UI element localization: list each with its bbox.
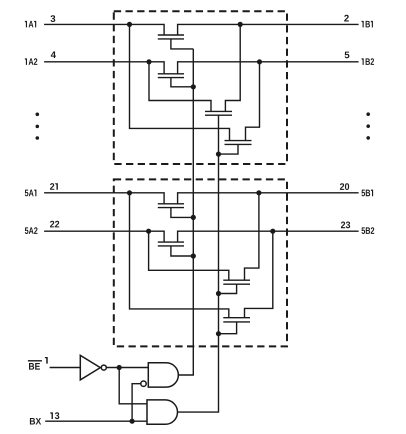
transistor Q5 gate lead to straight-control line [171,208,193,218]
label 5B2 [362,227,375,234]
pin 1 [45,357,48,364]
AND gate U2 (straight enable) body [148,363,178,387]
node junction inverter output [117,365,122,370]
transistor Q5 gate bar [158,207,184,209]
wire 5A1 (pin 21) to Q5 source lead [44,193,164,204]
transistor Q8 gate bar [223,321,250,323]
wire 5A2 (pin 22) to Q6 source lead [44,231,164,242]
node junction 1A2 / exchange tap [146,59,151,64]
transistor Q8 gate lead to exchange-control line [219,322,237,334]
pin 21 [50,183,58,190]
wire 5B1 (pin 20) to Q5 drain lead [178,193,359,204]
wire 1B2 tap to Q4 drain lead [246,62,260,141]
wire 1A2 tap to Q3 source lead [149,62,211,112]
transistor Q2 (1A2-1B2 pass FET) channel bar [158,73,184,75]
wire 1B1 (pin 2) to Q1 drain lead [178,24,359,35]
label 5A1 [25,190,37,197]
label 5B1 [362,190,374,197]
wire 5A1 tap to Q8 source lead [130,193,229,318]
label 1A2 [25,58,38,65]
label 5A2 [25,227,38,234]
label 1B1 [362,21,373,28]
transistor Q4 gate lead to exchange-control line [219,144,239,154]
wire 5A2 tap to Q7 source lead [149,231,229,280]
inverter U1 output bubble [101,365,106,370]
transistor Q2 gate lead to straight-control line [171,78,193,87]
wire 1B1 tap to Q3 drain lead [225,24,240,111]
label BE (active low) [29,363,40,370]
pin 13 [50,412,59,419]
node junction Q2 gate on straight-control line [191,84,196,89]
node junction Q4 gate on exchange-control line [216,152,221,157]
pin 22 [50,221,59,228]
node junction 5A1 / exchange tap [127,190,132,195]
wire 5B2 (pin 23) to Q6 drain lead [178,231,359,242]
node junction 1A1 / exchange tap [127,22,132,27]
pin 2 [344,15,349,22]
node junction Q8 gate on exchange-control line [216,331,221,336]
transistor Q7 (5A2-5B1 exchange FET) channel bar [223,279,250,281]
transistor Q7 gate lead to exchange-control line [219,284,237,293]
wire 5B1 tap to Q7 drain lead [245,193,259,280]
AND gate U2 input B bubble [141,381,146,386]
transistor Q3 gate bar [205,114,232,116]
wire inverter output to AND U2 input A [106,367,148,369]
node junction Q7 gate on exchange-control line [216,291,221,296]
transistor Q8 (5A1-5B2 exchange FET) channel bar [223,317,250,319]
transistor Q4 gate bar [225,143,252,145]
pin 3 [51,15,56,22]
ellipsis dots right [366,112,370,116]
wire BX input to AND U3 input B [45,420,147,422]
node junction 5B2 / exchange tap [270,229,275,234]
transistor Q7 gate bar [223,283,250,285]
dashed switch-block box 2 [114,179,287,346]
AND gate U3 (exchange enable) body [147,400,178,424]
label 1A1 [25,21,36,28]
wire 5B2 tap to Q8 drain lead [245,231,273,318]
transistor Q4 (1A1-1B2 exchange FET) channel bar [225,140,252,142]
transistor Q6 (5A2-5B2 pass FET) channel bar [158,241,184,243]
wire BE input to inverter U1 [50,367,81,369]
transistor Q1 (1A1-1B1 pass FET) channel bar [158,34,184,36]
wire 1A1 (pin 3) to Q1 source lead [44,24,164,35]
transistor Q3 (1A2-1B1 exchange FET) channel bar [205,110,232,112]
wire 1A2 (pin 4) to Q2 source lead [44,62,164,74]
node junction BX tap [130,419,135,424]
transistor Q6 gate bar [158,245,184,247]
transistor Q5 (5A1-5B1 pass FET) channel bar [158,203,184,205]
label 1B2 [362,58,375,65]
pin 20 [340,183,349,190]
node junction 1B1 / exchange tap [238,22,243,27]
overbar of BE [28,360,42,362]
transistor Q2 gate bar [158,77,184,79]
node junction 5B1 / exchange tap [256,190,261,195]
node junction 1B2 / exchange tap [257,59,262,64]
label BX [30,418,41,425]
wire 1B2 (pin 5) to Q2 drain lead [178,62,359,74]
dashed switch-block box 1 [114,11,287,164]
transistor Q1 gate lead to straight-control line [171,39,193,49]
inverter U1 triangle [80,355,100,380]
pin 23 [341,222,350,229]
wire inverter output down to AND U3 input A [119,368,147,404]
node junction Q6 gate on straight-control line [191,253,196,258]
ellipsis dots left [36,113,40,117]
wire BX tap up to AND U2 inverted input B [132,384,141,422]
transistor Q6 gate lead to straight-control line [171,246,193,256]
pin 5 [345,52,350,59]
wire exchange-control net (AND U3 output up to Q3 gate) [178,115,219,412]
pin 4 [51,51,56,58]
transistor Q1 gate bar [158,38,184,40]
node junction Q5 gate on straight-control line [191,215,196,220]
wire straight-control net (AND U2 output up to Q1 gate) [178,49,193,375]
node junction 5A2 / exchange tap [146,229,151,234]
wire 1A1 tap to Q4 source lead [130,24,230,140]
